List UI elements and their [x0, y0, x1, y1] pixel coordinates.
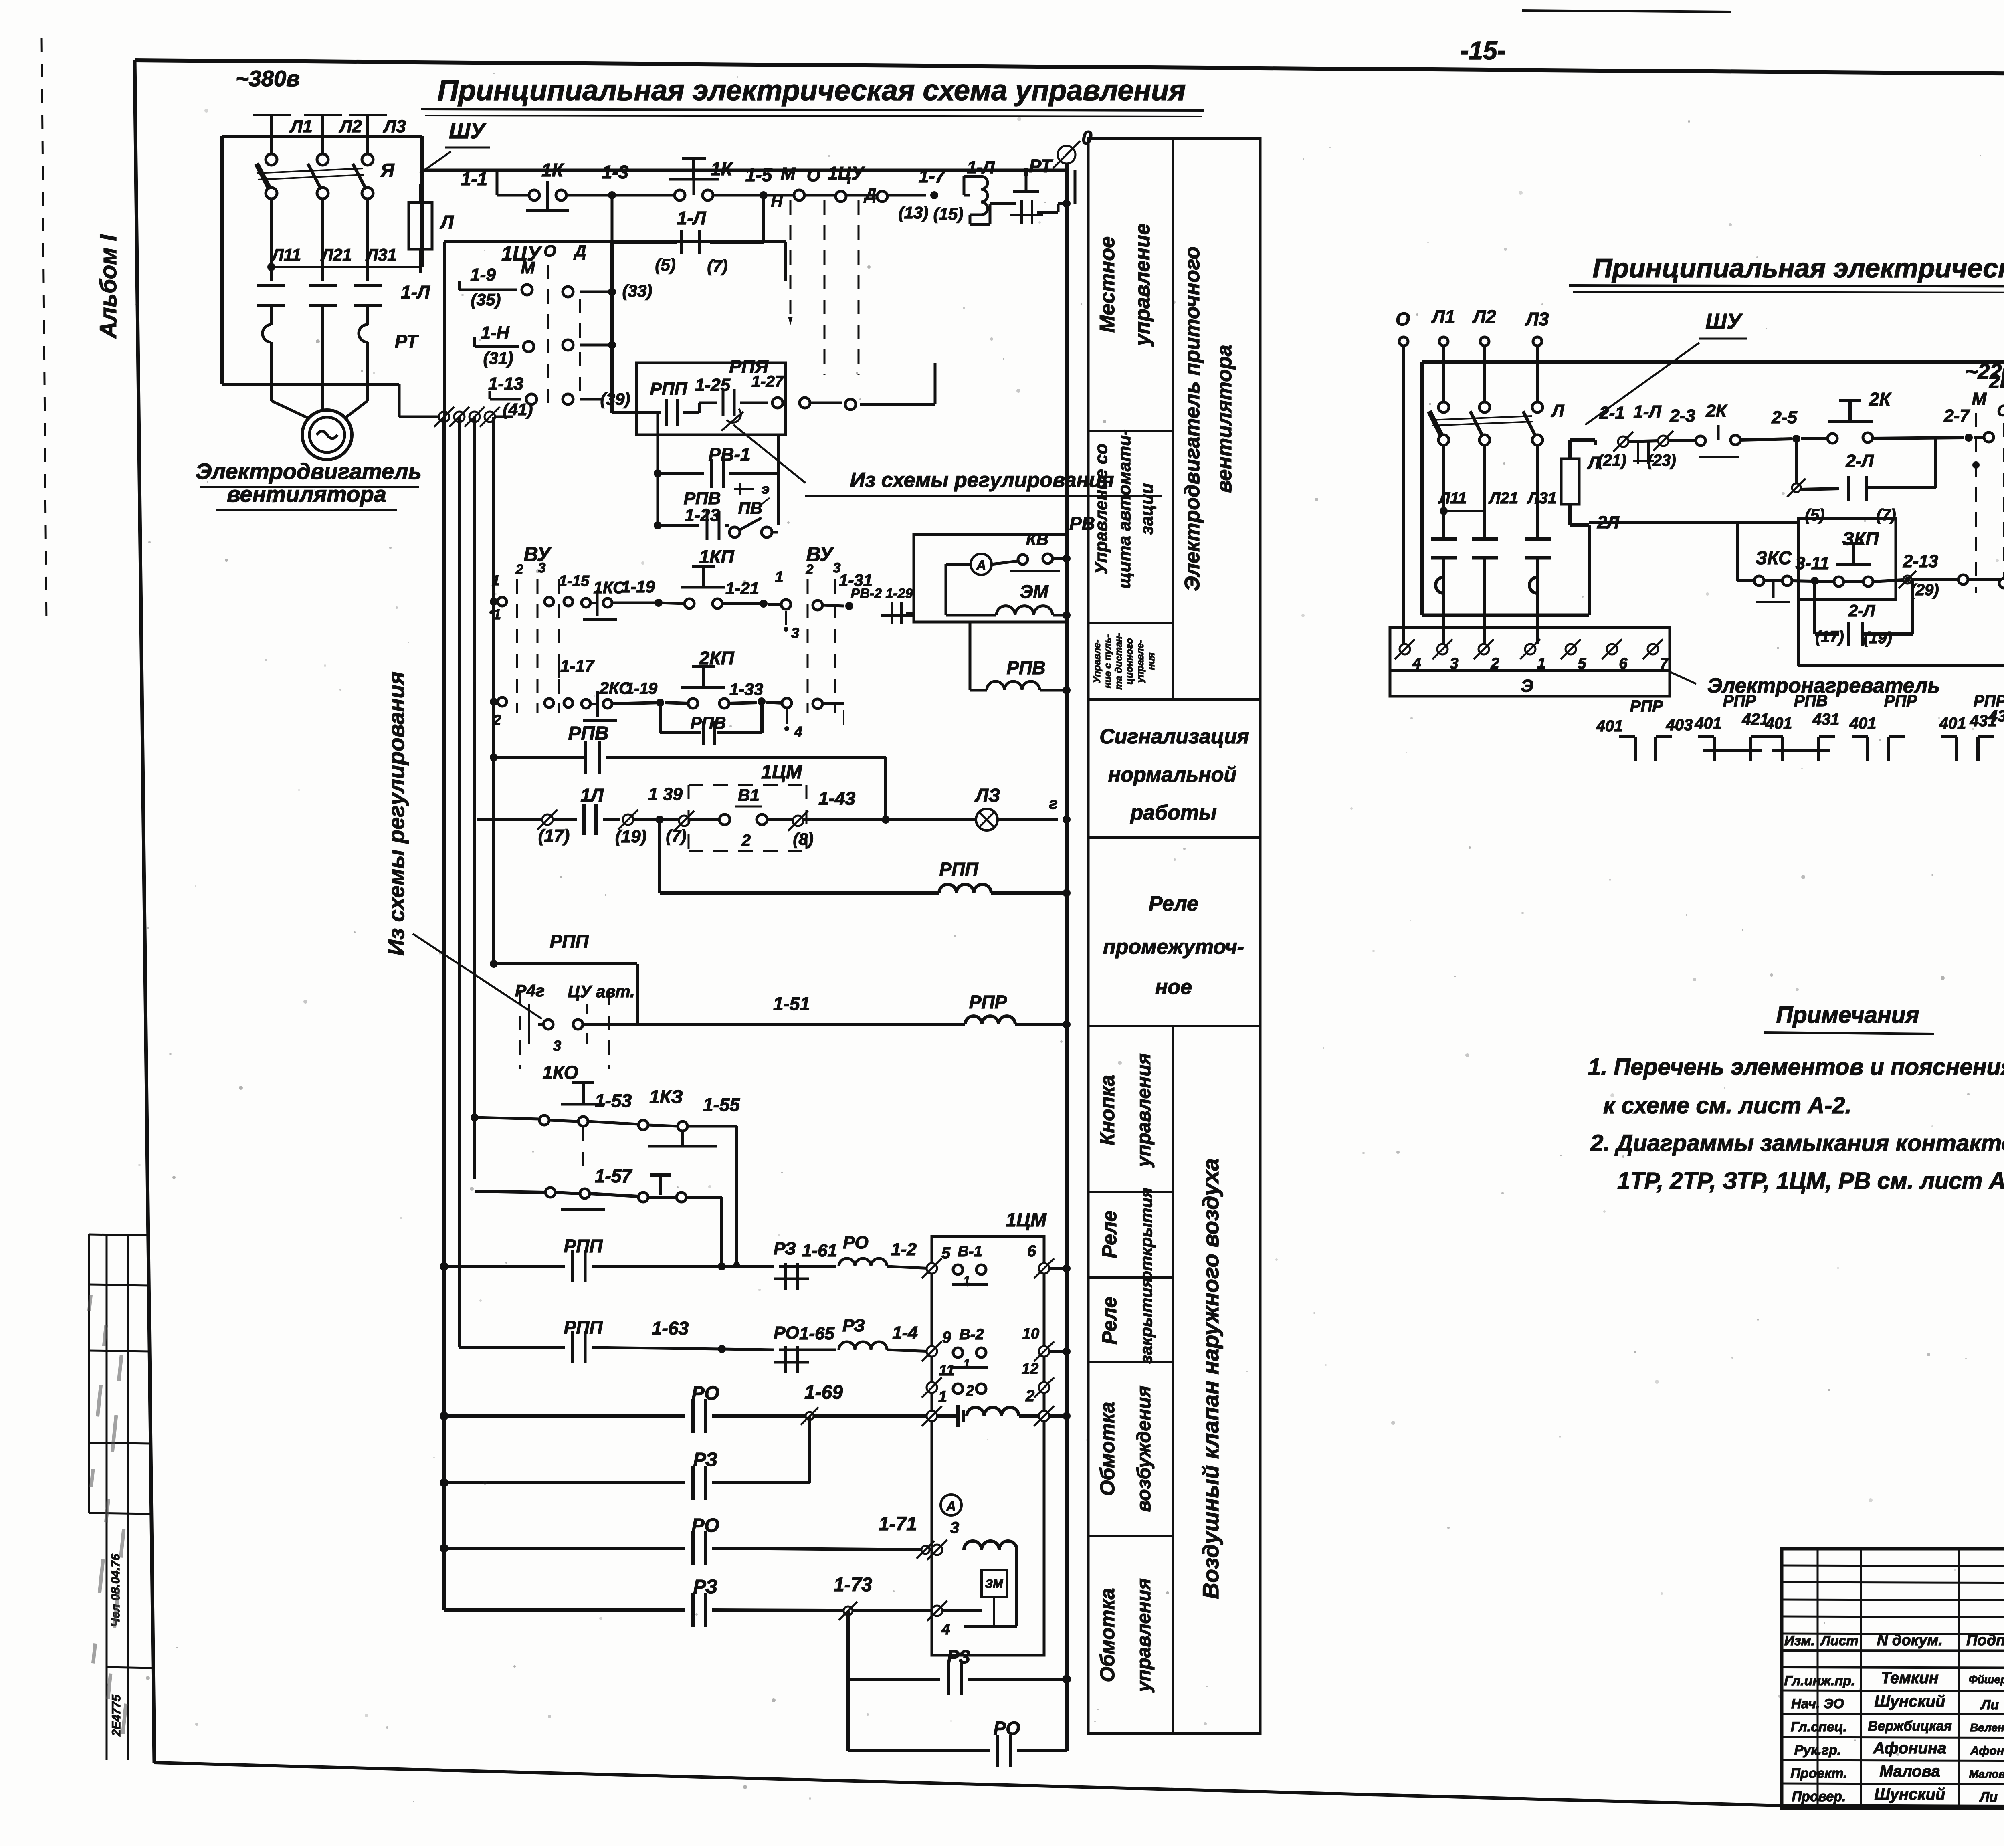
label РЗ (lower) [947, 1646, 971, 1667]
svg-text:(23): (23) [1647, 452, 1676, 469]
svg-text:3: 3 [538, 560, 546, 576]
margin smudges [87, 1295, 128, 1734]
label 1-71 [879, 1513, 917, 1535]
svg-text:2-1: 2-1 [1599, 403, 1625, 423]
svg-text:2-13: 2-13 [1903, 551, 1938, 571]
junction 2КП [656, 699, 664, 707]
svg-text:нормальной: нормальной [1108, 763, 1236, 786]
svg-text:1-7: 1-7 [919, 166, 946, 186]
s2 contact 2К no [1828, 389, 1892, 443]
label (5) [655, 255, 675, 274]
slashed 4 (1ЦМ) [927, 1601, 950, 1638]
label М (rung1) [781, 164, 796, 184]
svg-text:Шунский: Шунский [1875, 1692, 1945, 1710]
svg-text:Провер.: Провер. [1792, 1789, 1846, 1804]
slashed 6 [1027, 1242, 1054, 1278]
s2 contact Н row [1999, 576, 2004, 594]
svg-text:вентилятора: вентилятора [227, 481, 386, 507]
junction РЗ-a [440, 1478, 448, 1487]
svg-text:ЗКП: ЗКП [1842, 528, 1879, 549]
svg-text:1-Н: 1-Н [481, 323, 510, 343]
svg-text:1Л: 1Л [580, 785, 604, 806]
svg-text:Э: Э [1521, 676, 1533, 696]
label 1-39 [648, 784, 683, 804]
label 1-Л (aux) [677, 208, 707, 228]
svg-text:(7): (7) [1877, 506, 1896, 524]
phase feeder L3 tick [349, 115, 387, 158]
title block revision grid [1782, 1549, 2004, 1808]
svg-text:1-Л: 1-Л [1633, 402, 1661, 422]
label (39) [600, 390, 630, 408]
junction 1ЦУ mid [608, 341, 616, 349]
schema1 table frame [1088, 139, 1260, 1733]
label РПП (Р4г) [550, 931, 589, 952]
slashed 7 [666, 811, 694, 845]
svg-text:Воздушный клапан наружного воз: Воздушный клапан наружного воздуха [1198, 1158, 1223, 1599]
contact 1-15 [545, 573, 590, 606]
svg-text:(39): (39) [600, 390, 630, 408]
svg-text:РТ: РТ [1029, 156, 1053, 176]
phase wires to contactor [271, 199, 368, 281]
note 2 line 1 [1590, 1130, 2004, 1156]
ВУ dashed cols right [806, 560, 841, 713]
svg-text:Шунский: Шунский [1875, 1785, 1945, 1803]
svg-text:11: 11 [939, 1362, 954, 1379]
junction 1-63 [718, 1345, 726, 1353]
regulation leader [733, 425, 806, 483]
s2 rung 3-11 [1737, 543, 1968, 602]
label РЗ (63) [842, 1316, 865, 1335]
label 1-53 [595, 1090, 632, 1111]
contact Д rung1 [836, 191, 887, 202]
s2 breaker poles [1429, 402, 1543, 445]
button 2КП [665, 666, 757, 708]
s2 terminal Л2 [1472, 306, 1496, 407]
svg-text:2КП: 2КП [699, 648, 735, 669]
phase feeder L1 tick [253, 115, 291, 158]
cell Электродвигатель приточного вентилятора [1181, 246, 1236, 591]
cell Обмотка управления [1096, 1578, 1155, 1693]
s2 wrap bottom [1798, 600, 2004, 666]
svg-text:6: 6 [1027, 1242, 1036, 1260]
rung РПП 1-61 [444, 1250, 722, 1282]
rung РЗ a [444, 1416, 810, 1500]
s2 labels (5)(7) [1805, 506, 1896, 524]
wire 10 to bus [1049, 1350, 1067, 1353]
label 1КП [699, 546, 735, 567]
svg-text:РПР: РПР [969, 992, 1007, 1012]
label Д (1ЦУ) [574, 242, 586, 260]
terminal row slashed [434, 407, 500, 427]
svg-text:Электродвигатель приточного: Электродвигатель приточного [1181, 246, 1204, 591]
s2 relay row g2 [1695, 692, 1769, 761]
svg-text:(17): (17) [1815, 628, 1844, 646]
label РО (61) [843, 1233, 869, 1252]
label Р4г [515, 981, 545, 1000]
thermal elements РТ [263, 325, 368, 410]
svg-text:1-19: 1-19 [625, 680, 658, 697]
s2 label 2Л [1597, 513, 1619, 532]
junction ЭМ bus [1063, 611, 1071, 619]
sheet frame top border [135, 60, 2004, 77]
svg-text:1-69: 1-69 [804, 1382, 843, 1403]
svg-text:РПВ: РПВ [1007, 657, 1046, 678]
label ШУ (schema1) [445, 119, 490, 147]
svg-text:Принципиальная электрическая: Принципиальная электрическая схема управ… [1592, 253, 2004, 283]
s2 link row [1444, 510, 1485, 512]
vertical РВ-1 right [777, 435, 780, 525]
label ПВ [738, 498, 770, 517]
svg-text:2. Диаграммы замыкания конта: 2. Диаграммы замыкания контактов [1590, 1130, 2004, 1156]
label 1КЗ [649, 1086, 683, 1107]
label В1 [735, 786, 762, 806]
s2 label 2-13 [1903, 551, 1938, 571]
tb row6 [1792, 1785, 1998, 1805]
svg-text:ПВ: ПВ [738, 499, 763, 517]
notes title [1764, 1002, 1934, 1034]
label РВ (box) [1069, 513, 1095, 534]
label 1КО [542, 1062, 578, 1083]
svg-text:1: 1 [964, 1274, 970, 1287]
svg-text:1-19: 1-19 [621, 577, 655, 596]
junction ВУ2 [490, 698, 498, 706]
stub contact 1 [768, 569, 799, 641]
contact 1Л [554, 804, 620, 835]
svg-text:РПВ: РПВ [1794, 692, 1828, 710]
s2 label 2ЦУ a [1989, 371, 2004, 392]
s2 slashed 2-3 [1647, 406, 1695, 469]
svg-text:РО: РО [994, 1718, 1020, 1739]
label 1-27 [751, 373, 784, 390]
svg-text:РВ-1: РВ-1 [709, 444, 751, 465]
junction ЛЗ bus [1063, 816, 1071, 824]
svg-text:1ТР, 2ТР, ЗТР, 1ЦМ, РВ см. л: 1ТР, 2ТР, ЗТР, 1ЦМ, РВ см. лист А-4. [1617, 1168, 2004, 1194]
rung РПП coil [660, 820, 1067, 893]
junction 1-73 [839, 1602, 857, 1620]
contact РВ-2 1-29 [881, 602, 914, 624]
label РПЯ [729, 356, 769, 377]
svg-text:1-57: 1-57 [595, 1165, 632, 1186]
svg-text:Ли: Ли [1979, 1789, 1998, 1805]
label РЗ (61) [774, 1239, 796, 1258]
svg-text:Управле-: Управле- [1092, 640, 1103, 683]
svg-text:В-2: В-2 [959, 1326, 984, 1343]
rung РО 1-71 [444, 1531, 932, 1565]
junction rung1-bus [1063, 200, 1071, 208]
right control bus N [1067, 164, 1075, 1751]
svg-text:Малова: Малова [1879, 1763, 1940, 1780]
label РВ-2 1-29 [851, 586, 913, 601]
svg-text:9: 9 [942, 1329, 951, 1346]
label 1-69 [804, 1382, 843, 1403]
label РТ (thermal) [395, 331, 419, 352]
feeder V3 [473, 417, 476, 1179]
label Л (fuse) [440, 212, 454, 232]
contact 1-17 [545, 656, 595, 707]
svg-text:401: 401 [1695, 715, 1722, 732]
svg-text:Кнопка: Кнопка [1096, 1075, 1119, 1145]
svg-text:промежуточ-: промежуточ- [1103, 935, 1244, 959]
svg-text:(21): (21) [1598, 452, 1626, 469]
s2 relay row g5 [1939, 692, 2004, 761]
sheet frame left border [135, 60, 154, 1763]
s2 labels Л11 Л21 Л31 [1438, 489, 1557, 507]
svg-text:1-Л: 1-Л [401, 282, 430, 303]
svg-text:Лист: Лист [1820, 1633, 1858, 1648]
svg-text:М: М [781, 164, 796, 184]
junction РВ-1 [654, 469, 662, 477]
schema1 title underline [421, 109, 1204, 117]
junction 1-43 [882, 816, 890, 824]
svg-text:1-9: 1-9 [470, 265, 496, 285]
cell Реле промежуточное [1103, 892, 1244, 999]
svg-text:(7): (7) [666, 826, 686, 845]
svg-text:(15): (15) [933, 204, 964, 223]
svg-text:Фйшер: Фйшер [1969, 1673, 2004, 1686]
РПЯ contact 1-27 [699, 389, 810, 431]
svg-text:РЗ: РЗ [842, 1316, 865, 1335]
s2 wire fuse top [1570, 440, 1595, 445]
svg-text:РПР: РПР [1723, 692, 1756, 710]
s2 cabinet box [1422, 362, 2004, 615]
label 1-1 [461, 168, 487, 189]
contact В-2 [952, 1326, 988, 1370]
s2 label 2-Л aux b [1848, 601, 1875, 620]
junction 6 bus [1063, 1264, 1071, 1272]
label РТ (rung1) [1029, 156, 1053, 176]
svg-text:421: 421 [1742, 711, 1769, 728]
svg-text:О: О [807, 166, 820, 185]
svg-text:Д: Д [864, 186, 877, 203]
svg-text:О: О [1396, 309, 1410, 329]
tb header Лист [1820, 1633, 1858, 1648]
cell Сигнализация нормальной работы [1099, 725, 1249, 824]
svg-text:2-5: 2-5 [1771, 408, 1797, 427]
s2 feed wire low [1589, 522, 1798, 581]
contact 2КС [582, 679, 631, 721]
ВУ1 small contact [489, 572, 507, 622]
phase feeder L2 tick [304, 115, 342, 158]
s2 ШУ leader [1585, 343, 1699, 425]
junction 2 bus [1063, 1412, 1071, 1420]
svg-text:10: 10 [1022, 1325, 1039, 1342]
svg-text:2: 2 [741, 832, 751, 849]
fuse Л [409, 184, 432, 273]
svg-text:РЗ: РЗ [774, 1239, 796, 1258]
svg-text:2ЦУ: 2ЦУ [1989, 371, 2004, 392]
label 1-31 [839, 571, 873, 590]
svg-text:(5): (5) [655, 255, 675, 274]
svg-text:РВ-2 1-29: РВ-2 1-29 [851, 586, 913, 601]
svg-text:1: 1 [492, 572, 500, 588]
svg-text:1КП: 1КП [699, 546, 735, 567]
s2 label Л (breaker) [1551, 401, 1564, 421]
svg-text:2-3: 2-3 [1669, 406, 1695, 426]
wire РПЯ right [810, 363, 935, 410]
svg-text:Подп.: Подп. [1966, 1632, 2004, 1649]
svg-text:Рук.гр.: Рук.гр. [1794, 1743, 1841, 1758]
label Л3 [383, 117, 406, 136]
svg-text:1-3: 1-3 [602, 162, 629, 182]
label 1Л [580, 785, 604, 806]
label 1-19 (a) [621, 577, 655, 596]
branch vertical РПП [657, 413, 659, 525]
svg-text:щита автомати-: щита автомати- [1115, 429, 1134, 588]
svg-text:Л3: Л3 [1525, 309, 1549, 329]
svg-text:Малов: Малов [1969, 1768, 2004, 1780]
s2 Э terminals [1395, 639, 1663, 659]
svg-text:РЗ: РЗ [693, 1576, 717, 1598]
svg-text:(19): (19) [615, 827, 646, 846]
svg-text:ЭМ: ЭМ [1020, 581, 1049, 602]
РПП contact 1-25 [612, 399, 699, 426]
contact 1КС [582, 578, 625, 620]
label 1К [541, 160, 564, 180]
svg-text:Л11: Л11 [1438, 489, 1467, 507]
svg-text:2К: 2К [1705, 401, 1727, 421]
svg-text:4: 4 [794, 723, 802, 740]
contact В-1 [952, 1243, 988, 1287]
svg-text:1-55: 1-55 [703, 1094, 740, 1115]
svg-text:1-Л: 1-Л [967, 158, 995, 177]
junction 1КО [471, 1113, 479, 1121]
schema2 title [1592, 253, 2004, 283]
junction 10 bus [1063, 1347, 1071, 1355]
s2 junction 2-5 [1771, 408, 1800, 443]
tb header Изм [1784, 1633, 1815, 1648]
label 1ЦМ (dash box) [761, 761, 802, 783]
ЗМ bottom wire [942, 1597, 1017, 1626]
rung ЛЗ left [477, 818, 543, 821]
s2 junction 2-7 [1943, 406, 1973, 442]
svg-text:управления: управления [1133, 1053, 1155, 1168]
contact ВУ right 2 [813, 699, 844, 733]
rung РЗ 1-73 [444, 1593, 932, 1627]
svg-text:401: 401 [1765, 715, 1792, 732]
s2 aux 2-Л rung [1787, 438, 1936, 501]
svg-text:401: 401 [1596, 717, 1623, 735]
svg-text:2: 2 [1025, 1387, 1034, 1405]
svg-text:1-13: 1-13 [488, 374, 523, 394]
rung 1-51 [609, 1016, 1067, 1024]
label 1-73 [834, 1574, 872, 1596]
1ЦУ right contacts [563, 287, 612, 404]
svg-text:4: 4 [1412, 655, 1421, 672]
svg-text:Гл.спец.: Гл.спец. [1791, 1719, 1847, 1735]
svg-text:Н: Н [771, 193, 783, 210]
junction РПВ long [490, 753, 498, 761]
svg-text:РПП: РПП [650, 379, 688, 399]
coil РПВ (schema1) [970, 622, 1067, 690]
svg-text:Л2: Л2 [339, 117, 362, 136]
dashed column О [824, 200, 826, 375]
s2 terminal Л3 [1525, 309, 1549, 407]
svg-text:2: 2 [966, 1382, 974, 1399]
note 1 line 2 [1603, 1093, 1852, 1119]
rung 1-61 right [722, 1258, 932, 1290]
label 1-Л (contactor) [401, 282, 430, 303]
label РО (71) [691, 1515, 719, 1536]
stub contact 4 [766, 698, 802, 740]
label 1-61 [802, 1241, 837, 1260]
svg-text:работы: работы [1129, 801, 1216, 824]
svg-text:Велен: Велен [1970, 1721, 2004, 1734]
svg-text:О: О [543, 242, 556, 260]
label РПП (РПЯ box) [650, 379, 688, 399]
wire to 1ЦМ [634, 818, 679, 821]
svg-text:КВ: КВ [1026, 530, 1048, 549]
label 1ЦМ (box) [1006, 1210, 1047, 1231]
svg-text:1КО: 1КО [542, 1062, 578, 1083]
s2 terminal Л1 [1431, 306, 1455, 407]
ammeter А [946, 554, 1018, 615]
label 1ЦУ (rung1) [828, 163, 865, 184]
svg-text:управления: управления [1133, 1578, 1155, 1693]
contact 1-Л aux [681, 230, 699, 254]
junction 1-39 [656, 816, 664, 824]
svg-text:Вержбицкая: Вержбицкая [1868, 1719, 1952, 1734]
left bus V4 [492, 417, 495, 964]
button 1К stop [669, 158, 719, 200]
labels Л11 Л21 Л31 [271, 245, 397, 264]
svg-text:401: 401 [1849, 715, 1877, 732]
svg-text:(31): (31) [483, 349, 513, 368]
svg-text:1ЦУ: 1ЦУ [828, 163, 865, 184]
label (13) [899, 203, 929, 222]
stray scan line top [1522, 10, 1731, 12]
wire 1КС to 1КП [612, 602, 659, 604]
rung РО bottom [848, 1735, 1067, 1767]
label 1-65 [799, 1324, 835, 1343]
svg-text:7: 7 [1660, 655, 1669, 672]
svg-text:1КЗ: 1КЗ [649, 1086, 683, 1107]
label РПП (63) [564, 1317, 603, 1338]
title block frame [1782, 1549, 2004, 1808]
svg-text:2К: 2К [1869, 389, 1892, 410]
svg-text:Л31: Л31 [365, 245, 397, 264]
svg-text:1-4: 1-4 [892, 1323, 918, 1343]
label 1-55 [703, 1094, 740, 1115]
ammeter Д (1ЦМ) [941, 1495, 962, 1515]
s2 Электронагреватель label [1670, 672, 1940, 697]
svg-text:Местное: Местное [1096, 236, 1119, 333]
svg-text:1-23: 1-23 [685, 505, 720, 525]
svg-text:э: э [762, 481, 770, 497]
svg-text:2: 2 [515, 562, 523, 577]
svg-text:(29): (29) [1910, 581, 1939, 599]
svg-text:РО: РО [843, 1233, 869, 1252]
junction РПВ-23 [654, 521, 662, 529]
svg-text:Я: Я [380, 160, 395, 180]
svg-text:ШУ: ШУ [1705, 309, 1743, 333]
s2 thermal bumps [1436, 577, 1537, 593]
svg-text:РО: РО [774, 1323, 799, 1343]
svg-text:1: 1 [493, 606, 501, 622]
svg-text:М: М [521, 258, 535, 277]
rung1 wire [497, 194, 970, 197]
svg-text:Л: Л [440, 212, 454, 232]
contactor 1-Л gaps [257, 285, 382, 325]
svg-text:1-15: 1-15 [559, 573, 590, 590]
svg-text:1-5: 1-5 [745, 164, 773, 185]
svg-text:Л31: Л31 [1527, 489, 1557, 507]
cell Местное управление [1096, 223, 1154, 347]
s2 label ЗКП [1842, 528, 1879, 549]
label М (1ЦУ) [521, 258, 535, 277]
svg-text:к схеме см. лист А-2.: к схеме см. лист А-2. [1603, 1093, 1852, 1119]
junction Р4г [490, 960, 498, 968]
wire 1ЦМ to lamp [803, 818, 976, 821]
